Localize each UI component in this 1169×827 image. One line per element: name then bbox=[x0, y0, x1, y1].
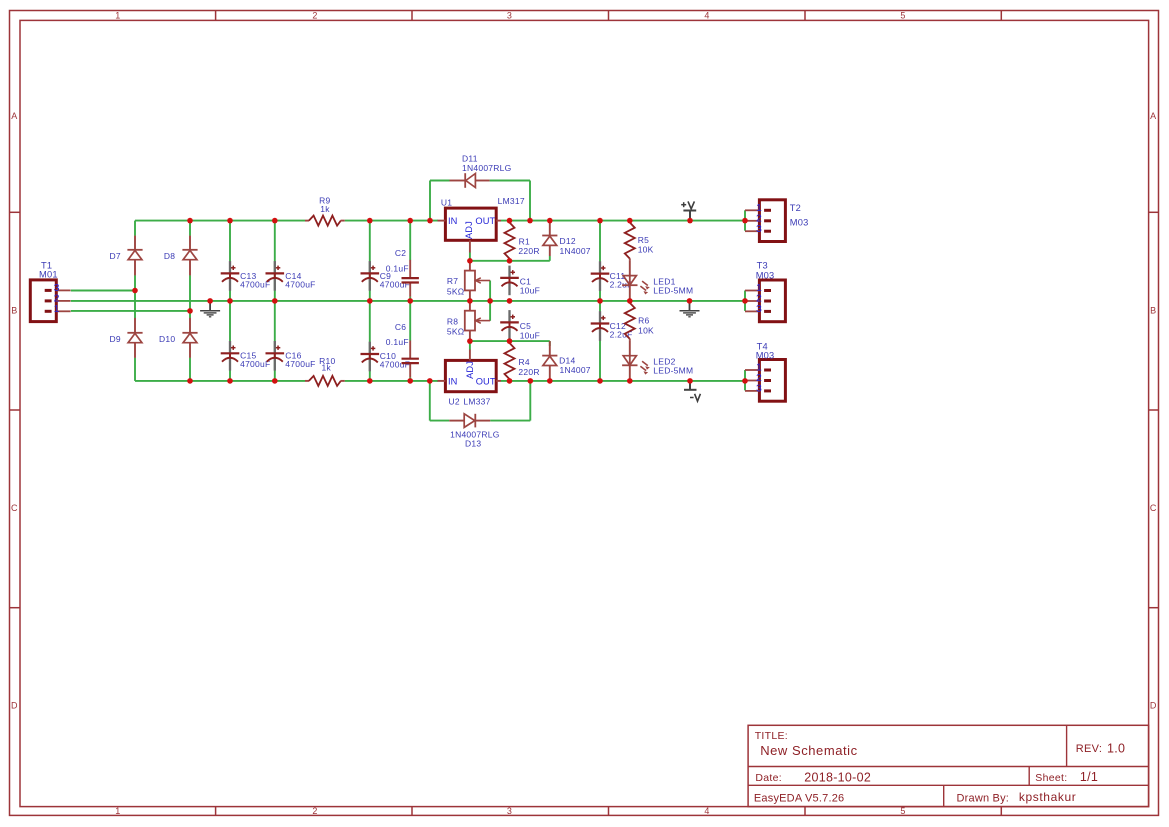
svg-text:C6: C6 bbox=[395, 322, 406, 332]
wire C15 column bbox=[229, 301, 231, 381]
connector T4 bbox=[759, 360, 785, 402]
-V power flag bbox=[689, 381, 691, 390]
svg-text:1N4007RLG: 1N4007RLG bbox=[462, 163, 512, 173]
wire D14 cathode drop bbox=[549, 341, 551, 346]
junction dot (410.2,380.9) bbox=[407, 378, 413, 384]
wire D13 bypass bottom left segment bbox=[430, 420, 450, 422]
wire D12 anode rise bbox=[549, 256, 551, 261]
title block Sheet divider bbox=[1028, 767, 1030, 786]
connector T1 bbox=[30, 280, 56, 322]
capacitor C16 bbox=[274, 341, 276, 353]
svg-text:4700uF: 4700uF bbox=[380, 279, 410, 289]
junction dot (530.3,380.9) bbox=[528, 378, 534, 384]
svg-text:kpsthakur: kpsthakur bbox=[1019, 790, 1076, 804]
wire C6 column bbox=[409, 301, 411, 341]
svg-text:C: C bbox=[11, 503, 18, 513]
capacitor C1 bbox=[508, 266, 510, 278]
ground symbol left bbox=[209, 301, 211, 311]
svg-text:2: 2 bbox=[312, 806, 317, 816]
junction dot (230,220.6) bbox=[227, 218, 233, 224]
junction dot (430,220.6) bbox=[427, 218, 433, 224]
diode D9 bbox=[134, 318, 136, 333]
svg-text:T2: T2 bbox=[790, 203, 801, 213]
junction dot (274.8,220.6) bbox=[272, 218, 278, 224]
regulator U2 LM337 box bbox=[445, 360, 496, 391]
connector T2 bbox=[759, 200, 785, 242]
U2 OUT pin stub bbox=[496, 380, 501, 382]
U1 ADJ pin stub bbox=[469, 240, 471, 252]
svg-text:1k: 1k bbox=[320, 204, 330, 214]
capacitor C6 bbox=[409, 341, 411, 359]
svg-text:3: 3 bbox=[756, 383, 762, 395]
title block REV divider bbox=[1066, 725, 1068, 766]
junction dot (745,300.9) bbox=[742, 298, 748, 304]
svg-text:1N4007: 1N4007 bbox=[560, 365, 591, 375]
svg-text:0.1uF: 0.1uF bbox=[386, 263, 409, 273]
svg-text:3: 3 bbox=[756, 303, 762, 315]
wire C2 column bbox=[409, 221, 411, 261]
wire D11 bypass right drop bbox=[529, 181, 531, 221]
junction dot (410.2,220.6) bbox=[407, 218, 413, 224]
svg-text:REV:: REV: bbox=[1076, 743, 1102, 755]
svg-text:5: 5 bbox=[900, 806, 905, 816]
frame column tick top bbox=[411, 11, 413, 21]
wire T1 pin3 to D7 column bbox=[71, 290, 135, 292]
junction dot (509.5,220.6) bbox=[507, 218, 513, 224]
junction dot (429.8,380.9) bbox=[427, 378, 433, 384]
wire T2 bracket bbox=[744, 210, 746, 230]
wire D11 bypass top right segment bbox=[490, 180, 530, 182]
svg-text:B: B bbox=[11, 306, 17, 316]
frame column tick top bbox=[804, 11, 806, 21]
resistor R1 bbox=[509, 221, 511, 223]
junction dot (210.1,300.9) bbox=[207, 298, 213, 304]
svg-text:LED-5MM: LED-5MM bbox=[653, 285, 693, 295]
capacitor C14 bbox=[274, 261, 276, 273]
junction dot (274.8,380.9) bbox=[272, 378, 278, 384]
svg-text:1: 1 bbox=[115, 11, 120, 21]
wire left bank vertical D7 column bbox=[134, 221, 136, 236]
capacitor C15 bbox=[229, 341, 231, 353]
svg-text:D12: D12 bbox=[560, 236, 576, 246]
wire C12 column bbox=[599, 301, 601, 381]
U2 ADJ pin stub bbox=[469, 350, 471, 361]
svg-text:1k: 1k bbox=[322, 363, 332, 373]
svg-text:10K: 10K bbox=[638, 326, 654, 336]
svg-text:5KΩ: 5KΩ bbox=[447, 327, 465, 337]
svg-text:LM317: LM317 bbox=[498, 196, 525, 206]
svg-text:U1: U1 bbox=[441, 197, 452, 207]
svg-text:4700uF: 4700uF bbox=[240, 279, 270, 289]
svg-text:4: 4 bbox=[704, 806, 709, 816]
junction dot (509.5,341.1) bbox=[507, 338, 513, 344]
svg-text:2: 2 bbox=[312, 11, 317, 21]
svg-text:C: C bbox=[1150, 503, 1157, 513]
svg-text:10uF: 10uF bbox=[520, 331, 540, 341]
svg-text:IN: IN bbox=[448, 376, 458, 386]
wire -raw bottom rail bbox=[135, 380, 305, 382]
svg-text:Drawn By:: Drawn By: bbox=[957, 793, 1010, 805]
frame row tick left bbox=[10, 409, 21, 411]
svg-text:IN: IN bbox=[448, 216, 458, 226]
junction dot (369.8,300.9) bbox=[367, 298, 373, 304]
diode D13 bypass of U2 bbox=[449, 420, 464, 422]
svg-text:3: 3 bbox=[507, 11, 512, 21]
frame column tick bottom bbox=[1000, 807, 1002, 816]
frame row tick right bbox=[1149, 211, 1159, 213]
wire U1 ADJ drop bbox=[469, 253, 471, 261]
connector T3 bbox=[759, 280, 785, 322]
junction dot (629.8,220.6) bbox=[627, 218, 633, 224]
junction dot (410.2,300.9) bbox=[407, 298, 413, 304]
diode D10 bbox=[189, 318, 191, 333]
capacitor C9 bbox=[369, 261, 371, 273]
svg-text:R5: R5 bbox=[638, 235, 649, 245]
svg-text:0.1uF: 0.1uF bbox=[386, 337, 409, 347]
wire U2 ADJ row bbox=[470, 340, 550, 342]
svg-text:D: D bbox=[11, 701, 18, 711]
svg-text:10K: 10K bbox=[638, 245, 654, 255]
junction dot (549.8,380.9) bbox=[547, 378, 553, 384]
diode D12 bbox=[549, 221, 551, 236]
wire C16 column bbox=[274, 301, 276, 381]
junction dot (190,380.9) bbox=[187, 378, 193, 384]
svg-text:4: 4 bbox=[704, 11, 709, 21]
wire C9 column bbox=[369, 221, 371, 301]
wire R7 wiper vertical bbox=[489, 281, 491, 321]
junction dot (274.8,300.9) bbox=[272, 298, 278, 304]
svg-text:R6: R6 bbox=[638, 316, 649, 326]
svg-text:TITLE:: TITLE: bbox=[755, 730, 788, 742]
junction dot (469.9,341.1) bbox=[467, 338, 473, 344]
frame column tick bottom bbox=[804, 807, 806, 816]
frame row tick left bbox=[10, 607, 21, 609]
svg-text:R7: R7 bbox=[447, 276, 458, 286]
U1 IN pin stub bbox=[438, 220, 446, 222]
svg-text:D13: D13 bbox=[465, 439, 481, 449]
svg-text:1/1: 1/1 bbox=[1080, 770, 1098, 784]
svg-text:A: A bbox=[1150, 111, 1156, 121]
ground symbol right bbox=[689, 301, 691, 311]
junction dot (690,380.9) bbox=[687, 378, 693, 384]
+V power flag bbox=[689, 211, 691, 221]
capacitor C12 bbox=[599, 311, 601, 323]
junction dot (230,300.9) bbox=[227, 298, 233, 304]
svg-text:M03: M03 bbox=[756, 351, 775, 361]
wire U2 ADJ rise bbox=[469, 341, 471, 349]
svg-text:1N4007: 1N4007 bbox=[560, 246, 591, 256]
regulator U1 LM317 box bbox=[445, 208, 496, 240]
svg-text:3: 3 bbox=[756, 223, 762, 235]
svg-text:R8: R8 bbox=[447, 316, 458, 326]
frame row tick right bbox=[1149, 607, 1159, 609]
diode D14 bbox=[549, 341, 551, 356]
frame column tick top bbox=[1000, 11, 1002, 21]
capacitor C11 bbox=[599, 261, 601, 273]
svg-text:U2: U2 bbox=[449, 397, 460, 407]
svg-text:4700uF: 4700uF bbox=[285, 279, 315, 289]
capacitor C2 bbox=[409, 260, 411, 278]
svg-text:1: 1 bbox=[115, 806, 120, 816]
diode D7 bbox=[134, 236, 136, 250]
frame column tick bottom bbox=[608, 807, 610, 816]
capacitor C10 bbox=[369, 342, 371, 354]
title block Drawn By divider bbox=[943, 785, 945, 806]
junction dot (190,310.9) bbox=[187, 308, 193, 314]
svg-text:3: 3 bbox=[507, 806, 512, 816]
junction dot (745,220.6) bbox=[742, 218, 748, 224]
title block row separator 1 bbox=[748, 766, 1149, 768]
svg-text:B: B bbox=[1150, 306, 1156, 316]
svg-text:5: 5 bbox=[900, 11, 905, 21]
wire +raw top rail bbox=[135, 220, 305, 222]
U2 IN pin stub bbox=[438, 380, 446, 382]
svg-text:5KΩ: 5KΩ bbox=[447, 287, 465, 297]
svg-text:T3: T3 bbox=[757, 261, 768, 271]
frame column tick top bbox=[215, 11, 217, 21]
potentiometer R8 bbox=[469, 301, 471, 311]
junction dot (600,220.6) bbox=[597, 218, 603, 224]
junction dot (509.5,380.9) bbox=[507, 378, 513, 384]
svg-text:LM337: LM337 bbox=[463, 397, 490, 407]
svg-text:LED-5MM: LED-5MM bbox=[653, 365, 693, 375]
wire C13 column bbox=[229, 221, 231, 301]
junction dot (745,380.9) bbox=[742, 378, 748, 384]
capacitor C5 bbox=[508, 310, 510, 322]
svg-text:M03: M03 bbox=[790, 218, 809, 228]
wire D13 bypass right rise bbox=[529, 381, 531, 421]
resistor R6 bbox=[629, 301, 631, 303]
wire C14 column bbox=[274, 221, 276, 301]
svg-text:EasyEDA V5.7.26: EasyEDA V5.7.26 bbox=[754, 793, 844, 805]
potentiometer R7 bbox=[469, 261, 471, 271]
wire U1 ADJ row bbox=[470, 260, 550, 262]
LED LED2 bbox=[629, 356, 631, 366]
junction dot (690,220.6) bbox=[687, 218, 693, 224]
wire C11 column bbox=[599, 221, 601, 301]
wire D13 bypass left drop bbox=[429, 381, 431, 421]
frame row tick right bbox=[1149, 409, 1159, 411]
junction dot (600,300.9) bbox=[597, 298, 603, 304]
capacitor C13 bbox=[229, 261, 231, 273]
junction dot (549.8,220.6) bbox=[547, 218, 553, 224]
svg-text:New Schematic: New Schematic bbox=[760, 743, 857, 758]
frame row tick left bbox=[10, 211, 21, 213]
svg-text:D10: D10 bbox=[159, 334, 175, 344]
svg-text:220R: 220R bbox=[518, 246, 539, 256]
junction dot (135,290.5) bbox=[132, 288, 138, 294]
svg-text:C2: C2 bbox=[395, 248, 406, 258]
junction dot (600,380.9) bbox=[597, 378, 603, 384]
wire left bank vertical D8 column bbox=[189, 221, 191, 236]
svg-text:220R: 220R bbox=[518, 367, 539, 377]
frame column tick bottom bbox=[215, 807, 217, 816]
svg-text:OUT: OUT bbox=[475, 216, 495, 226]
svg-text:1.0: 1.0 bbox=[1107, 741, 1125, 755]
svg-text:D9: D9 bbox=[110, 334, 121, 344]
svg-text:Date:: Date: bbox=[755, 772, 782, 784]
title block row separator 2 bbox=[748, 784, 1149, 786]
junction dot (530,220.6) bbox=[527, 218, 533, 224]
svg-text:10uF: 10uF bbox=[520, 286, 540, 296]
junction dot (469.9,260.8) bbox=[467, 258, 473, 264]
svg-text:4700uF: 4700uF bbox=[285, 359, 315, 369]
wire D11 bypass left drop bbox=[429, 181, 431, 221]
junction dot (629.8,380.9) bbox=[627, 378, 633, 384]
svg-text:ADJ: ADJ bbox=[465, 361, 475, 379]
svg-text:D7: D7 bbox=[110, 251, 121, 261]
wire D11 bypass top left segment bbox=[430, 180, 450, 182]
junction dot (509.5,300.9) bbox=[507, 298, 513, 304]
diode D11 bypass of U1 bbox=[450, 180, 466, 182]
svg-text:2018-10-02: 2018-10-02 bbox=[804, 770, 871, 784]
diode D8 bbox=[189, 236, 191, 250]
junction dot (509.5,260.8) bbox=[507, 258, 513, 264]
svg-text:R4: R4 bbox=[519, 357, 530, 367]
svg-text:A: A bbox=[11, 111, 17, 121]
junction dot (689.5,300.9) bbox=[687, 298, 693, 304]
junction dot (190,220.6) bbox=[187, 218, 193, 224]
frame column tick bottom bbox=[411, 807, 413, 816]
resistor R9 bbox=[305, 220, 309, 222]
junction dot (369.8,220.6) bbox=[367, 218, 373, 224]
svg-text:Sheet:: Sheet: bbox=[1035, 772, 1067, 784]
wire C10 column bbox=[369, 301, 371, 381]
resistor R10 bbox=[305, 380, 309, 382]
wire T1 pin1 to D8 column bbox=[71, 310, 190, 312]
svg-text:M03: M03 bbox=[756, 271, 775, 281]
svg-text:4700uF: 4700uF bbox=[240, 359, 270, 369]
title block outline bbox=[748, 725, 1149, 806]
svg-text:D: D bbox=[1150, 701, 1157, 711]
svg-text:4700uF: 4700uF bbox=[380, 360, 410, 370]
resistor R4 bbox=[509, 341, 511, 343]
svg-text:D8: D8 bbox=[164, 251, 175, 261]
U1 OUT pin stub bbox=[496, 220, 501, 222]
wire D13 bypass bottom right segment bbox=[490, 420, 530, 422]
junction dot (230,380.9) bbox=[227, 378, 233, 384]
LED LED1 bbox=[629, 276, 631, 286]
junction dot (469.9,300.9) bbox=[467, 298, 473, 304]
resistor R5 bbox=[629, 221, 631, 223]
junction dot (490.1,300.9) bbox=[487, 298, 493, 304]
svg-text:1: 1 bbox=[54, 303, 60, 315]
junction dot (629.8,300.9) bbox=[627, 298, 633, 304]
svg-text:OUT: OUT bbox=[476, 376, 496, 386]
svg-text:M01: M01 bbox=[39, 269, 58, 279]
junction dot (369.8,380.9) bbox=[367, 378, 373, 384]
frame column tick top bbox=[608, 11, 610, 21]
wire 0V middle rail bbox=[71, 300, 745, 302]
svg-text:ADJ: ADJ bbox=[464, 221, 474, 239]
wire T4 bracket bbox=[744, 370, 746, 390]
wire T3 bracket bbox=[744, 291, 746, 311]
